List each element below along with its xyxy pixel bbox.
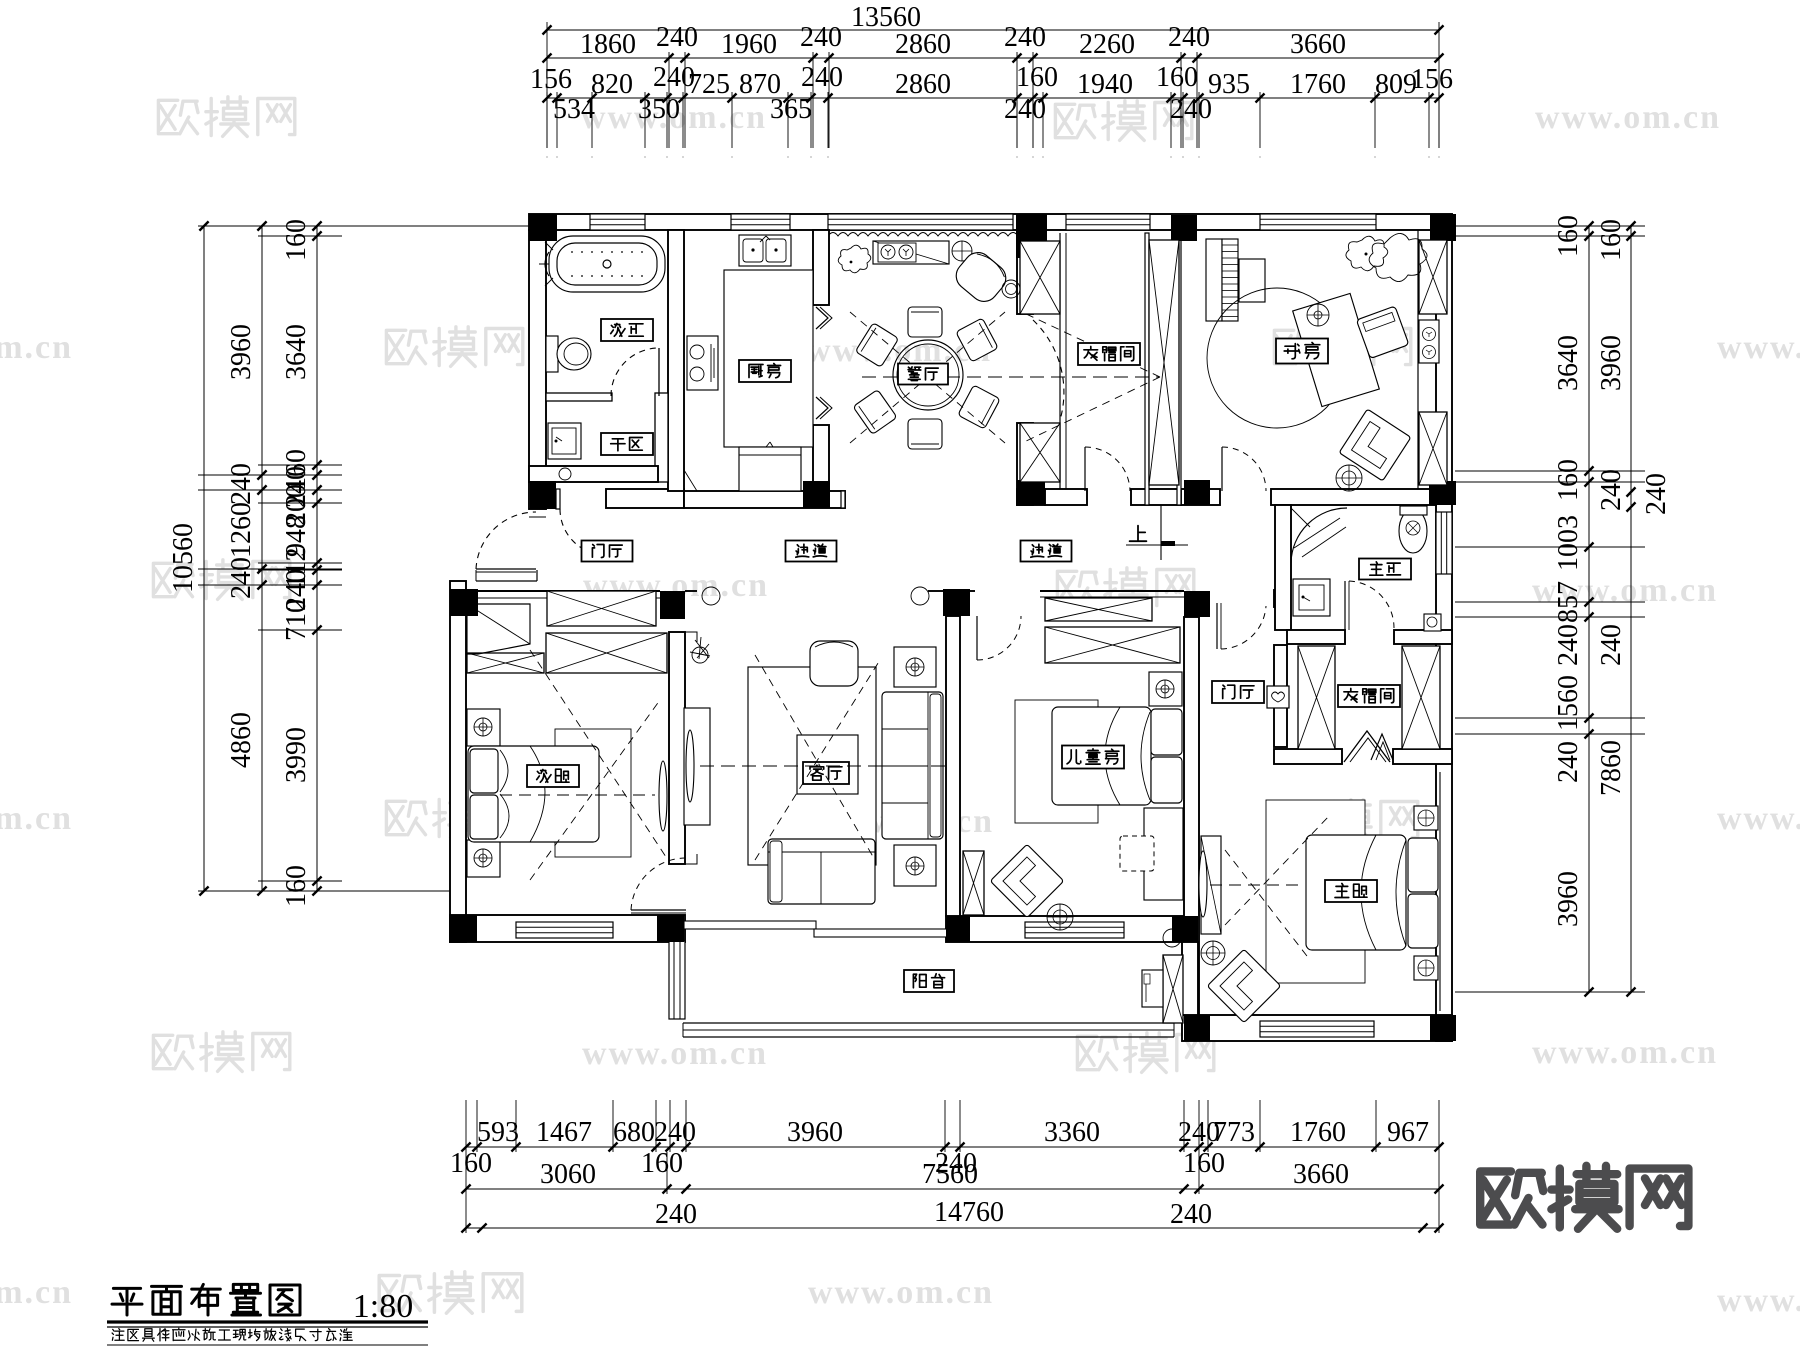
svg-text:240: 240 [1170,1199,1212,1230]
dimension right extension lines [1452,225,1645,227]
title plan name [112,1288,142,1315]
svg-text:156: 156 [1411,64,1453,95]
master bed with pillows [1306,835,1406,950]
door arc dining to closet hall [1033,320,1064,420]
section line and UP mark [1160,505,1162,545]
balcony circle [1163,929,1181,947]
column C15 [450,915,477,942]
TV wall bedroom2/living [669,632,685,864]
dining round table [893,340,963,410]
kidsroom door leaf and arc [976,616,978,660]
svg-text:710: 710 [281,599,312,641]
bathtub [549,236,665,292]
dimension left chain3 [316,226,318,891]
dimension bottom rowC chain 240/14760/240 [466,1227,1439,1229]
dining dashed sight lines [850,312,1005,443]
svg-text:160: 160 [1596,219,1627,261]
wall bath/dry divider [546,393,612,401]
dimension top row2 chain [547,57,1439,59]
foyer east wall pieces [1274,590,1287,607]
column C4 [1430,214,1456,241]
study door leaf and arc [1221,447,1223,491]
svg-text:3960: 3960 [1553,871,1584,927]
column C17 [946,916,970,942]
svg-text:7860: 7860 [1596,740,1627,796]
bedroom2 bed with pillows [555,729,631,857]
living coffee table [797,735,858,794]
svg-text:160: 160 [1156,62,1198,93]
svg-text:240: 240 [1553,624,1584,666]
svg-text:3360: 3360 [1044,1117,1100,1148]
window north 731-790 [731,214,790,230]
bathroom door leaf and arc [658,348,660,396]
study desk lamp [1307,304,1329,326]
master bed rug [1266,800,1365,983]
study bookshelf [1206,239,1222,321]
bedroom2 door leaf and arc [631,909,686,911]
master bath shower [1291,508,1347,563]
wardrobe X-box W7 [1419,240,1447,314]
study side cabinet [1419,320,1439,363]
wall bathroom/kitchen divider [668,230,684,491]
svg-text:www.om.cn: www.om.cn [808,1274,994,1311]
study east inner wall [1417,230,1419,489]
svg-text:3640: 3640 [281,324,312,380]
foyer heart sconce [1267,686,1289,708]
big watermark omcn logo [1480,1171,1543,1224]
plant living [690,637,710,659]
column C2 [1016,214,1047,258]
label foyer left [582,541,633,562]
svg-text:3990: 3990 [281,727,312,783]
curtain zigzag dining bay window [828,233,1018,237]
wall kitchen/dining [813,230,829,305]
svg-text:160: 160 [281,865,312,907]
living loveseat [768,839,875,904]
svg-text:www.om.cn: www.om.cn [1717,1282,1800,1319]
column C3 [1171,215,1197,241]
window north 828-1013 [828,214,1013,230]
column C6 [530,481,556,509]
master dashed sight lines [1210,884,1300,886]
label kidsroom [1062,746,1124,769]
living TV cabinet [684,708,710,825]
svg-text:10560: 10560 [168,523,199,593]
kidsroom armchair [990,844,1064,918]
east exterior wall [1436,230,1452,1041]
svg-text:3060: 3060 [540,1159,596,1190]
watermark row5 [153,1035,193,1068]
dimension bottom extension lines [465,1100,467,1233]
svg-text:1940: 1940 [1077,69,1133,100]
dimension bottom rowB chain [466,1188,1439,1190]
study floor lamp [1336,465,1362,491]
plants study [1346,236,1388,271]
north exterior wall [529,214,1452,230]
svg-text:1003: 1003 [1553,515,1584,571]
svg-text:160: 160 [1183,1148,1225,1179]
pendant lights corridor [702,587,720,605]
living rug [748,667,876,865]
master bedroom north wall [1274,749,1342,764]
svg-text:160: 160 [450,1148,492,1179]
svg-text:www.om.cn: www.om.cn [0,329,73,366]
dimension top row3 chain [547,97,1439,99]
watermark row3 [153,563,193,596]
entry door leaf and arc [476,568,536,570]
label closet lower [1338,685,1400,707]
wall living/kidsroom [946,616,960,916]
wardrobe X-box W13 [1402,646,1440,749]
master bath south wall [1287,630,1345,644]
svg-text:3960: 3960 [1596,335,1627,391]
title underline [107,1320,428,1323]
svg-text:www.om.cn: www.om.cn [1535,99,1721,136]
svg-text:www.om.cn: www.om.cn [1717,800,1800,837]
study desk [1293,293,1380,406]
svg-text:240: 240 [800,22,842,53]
svg-text:935: 935 [1208,69,1250,100]
wall kidsroom/foyer [1184,617,1199,1015]
svg-text:240: 240 [1596,469,1627,511]
svg-text:4860: 4860 [226,712,257,768]
wall dining/closet [1017,230,1033,314]
master headboard line [1439,772,1441,1011]
kidsroom nightstand [1149,672,1182,706]
dining corner lamp and armchair [952,241,972,261]
balcony east wall [1182,942,1198,1015]
kidsroom desk and chair [1144,808,1183,900]
dimension bottom rowA chain [466,1146,1439,1148]
wardrobe X-box W10 [1045,627,1180,663]
svg-text:3660: 3660 [1293,1159,1349,1190]
window south kidsroom [1025,922,1124,938]
label closet upper [1078,343,1140,365]
west exterior wall lower [450,581,466,942]
column C13 [943,589,970,616]
dimension right chain2 [1630,226,1632,992]
column C18 [1172,916,1198,942]
kitchen stove [687,336,718,390]
watermark row1 omcn-logo [158,100,198,133]
svg-text:240: 240 [226,557,257,599]
label dining [898,364,948,385]
wardrobe X-box W1 [547,591,656,626]
svg-text:240: 240 [1004,22,1046,53]
svg-text:534: 534 [553,94,595,125]
master TV cabinet [1201,836,1221,934]
study round rug [1207,288,1347,428]
svg-text:2860: 2860 [895,69,951,100]
column C14 [1184,591,1210,617]
column C8 [1017,480,1045,505]
column C1 [529,214,557,241]
column C7 [803,481,830,508]
south wall master bedroom [1182,1015,1452,1041]
svg-text:1860: 1860 [580,29,636,60]
wall jogs living side [685,632,697,642]
svg-text:160: 160 [641,1148,683,1179]
svg-text:1467: 1467 [536,1117,592,1148]
svg-text:160: 160 [281,219,312,261]
wardrobe X-box W9 [1045,598,1152,621]
window south bedroom2 [516,922,613,938]
column C5 [1431,241,1445,258]
title note [112,1329,124,1341]
living side tables [894,647,936,687]
column C11 [450,589,478,616]
svg-text:156: 156 [530,64,572,95]
bedroom2 nightstand bottom [467,840,500,877]
svg-text:160: 160 [1553,459,1584,501]
svg-text:www.om.cn: www.om.cn [1717,329,1800,366]
label secondary bath [601,319,653,341]
column C20 [1430,1015,1456,1041]
balcony west window [669,941,685,1019]
dry area sink [548,423,581,459]
entry landing [476,580,537,582]
window north 1066-1150 [1066,214,1150,230]
label balcony [904,970,954,992]
svg-text:725: 725 [688,69,730,100]
svg-text:3640: 3640 [1553,335,1584,391]
column C16 [657,915,684,942]
column C9 [1184,480,1210,505]
svg-text:www.om.cn: www.om.cn [0,1274,73,1311]
svg-text:1560: 1560 [1553,675,1584,731]
svg-text:7560: 7560 [922,1159,978,1190]
wardrobe X-box W14 [1163,955,1183,1023]
kitchen counter [724,270,813,447]
wardrobe X-box W8 [1419,412,1447,485]
svg-text:773: 773 [1213,1117,1255,1148]
south wall bedroom2 [450,915,685,942]
corridor south wall segments [466,590,660,592]
kidsroom bed [1052,707,1151,805]
kitchen double sink [739,235,791,266]
dining chairs [908,307,942,337]
svg-text:3660: 3660 [1290,29,1346,60]
label foyer right [1212,681,1264,703]
svg-text:1:80: 1:80 [353,1288,413,1325]
svg-text:2860: 2860 [895,29,951,60]
wardrobe X-box W4 [1020,241,1060,314]
east wall window master bath [1436,512,1452,574]
dimension left chain 10560 [203,226,205,891]
study chair [1356,306,1409,359]
sliding door living to balcony [684,921,816,929]
floor drain [559,468,571,480]
label corridor right [1021,541,1072,562]
kitchen corner piece [684,470,697,491]
master armchair [1207,949,1281,1023]
svg-text:240: 240 [655,1199,697,1230]
wardrobe X-box W6 [1149,240,1179,485]
svg-text:240: 240 [801,62,843,93]
label living room [803,762,849,784]
dining sideboard [873,241,949,264]
svg-text:240: 240 [1168,22,1210,53]
column C19 [1184,1015,1210,1041]
svg-text:240: 240 [656,22,698,53]
label dry area [601,433,653,455]
svg-text:3960: 3960 [226,324,257,380]
svg-text:www.om.cn: www.om.cn [582,1035,768,1072]
dimension right chain1 [1588,226,1590,992]
corridor north wall segments [556,489,560,509]
window north 590-645 [590,214,645,230]
walls walk-in closet upper [1059,233,1061,489]
balcony cabinet [1142,970,1163,1007]
plant dining [838,245,871,273]
svg-text:www.om.cn: www.om.cn [1532,1034,1718,1071]
svg-text:240: 240 [1553,741,1584,783]
master bath sink [1293,579,1330,616]
svg-text:820: 820 [591,69,633,100]
master nightstands [1414,806,1438,830]
svg-text:160: 160 [1016,62,1058,93]
wardrobe X-box W12 [1298,646,1335,749]
master bath west wall [1275,505,1291,630]
dry area door arc [560,509,606,555]
master bath toilet [1399,509,1427,553]
column C10 [1429,481,1456,505]
svg-text:www.om.cn: www.om.cn [0,800,73,837]
label corridor left [786,541,837,562]
svg-text:240: 240 [1170,94,1212,125]
balcony south rail lines [683,1022,1174,1024]
bedroom2 corner cabinet [467,604,530,654]
svg-text:1960: 1960 [721,29,777,60]
label kitchen [739,360,791,382]
wardrobe X-box W2 [546,633,667,673]
svg-text:240: 240 [1641,473,1672,515]
closet upper door arc [1084,447,1086,491]
svg-text:240: 240 [1596,624,1627,666]
kitchen fridge [739,447,801,491]
svg-text:2260: 2260 [1079,29,1135,60]
wardrobe X-box W5 [1020,423,1060,482]
study armchair [1339,409,1411,481]
wardrobe X-box W11 [963,851,984,915]
svg-text:967: 967 [1387,1117,1429,1148]
svg-text:240: 240 [654,1117,696,1148]
svg-text:1760: 1760 [1290,69,1346,100]
label master bath [1359,559,1411,580]
svg-text:680: 680 [613,1117,655,1148]
toilet secondary bath [546,336,558,372]
dimension left extension lines [198,225,529,227]
svg-text:1260: 1260 [226,502,257,558]
kidsroom floor lamp [1047,904,1073,930]
master bath floor drain [1424,614,1441,631]
svg-text:593: 593 [477,1117,519,1148]
bedroom2 TV and sight lines [659,761,667,831]
south wall kidsroom [946,916,1198,942]
svg-text:14760: 14760 [934,1197,1004,1228]
master bath door leaf and arc [1344,581,1346,630]
label study [1276,339,1328,364]
living dashed sight lines [700,765,945,767]
kidsroom bed rug [1015,700,1098,823]
svg-text:365: 365 [770,94,812,125]
svg-text:350: 350 [638,94,680,125]
living armchair [810,641,858,686]
svg-text:1760: 1760 [1290,1117,1346,1148]
living sofa [882,692,943,839]
kitchen folding door chevrons [816,307,828,329]
dimension left chain2 [261,226,263,891]
west exterior wall upper [529,230,546,509]
dimension top overall 13560 [547,29,1439,31]
label bedroom2 [527,765,579,787]
wardrobe X-box W3 [467,653,544,673]
window north 1260-1376 [1260,214,1376,230]
svg-text:240: 240 [1004,94,1046,125]
label master bedroom [1325,880,1377,902]
dimension top extension lines [546,22,548,148]
window south master bedroom [1260,1021,1374,1037]
closet hanger symbol [1371,734,1393,760]
watermark row1 right [1055,104,1095,137]
bedroom2 nightstand top [467,709,500,746]
svg-text:240: 240 [226,463,257,505]
door corridor to foyer [1216,603,1218,649]
column C12 [660,591,685,619]
folding door closet to master bedroom [1344,731,1390,762]
master floor lamp [1201,941,1225,965]
svg-text:3960: 3960 [787,1117,843,1148]
